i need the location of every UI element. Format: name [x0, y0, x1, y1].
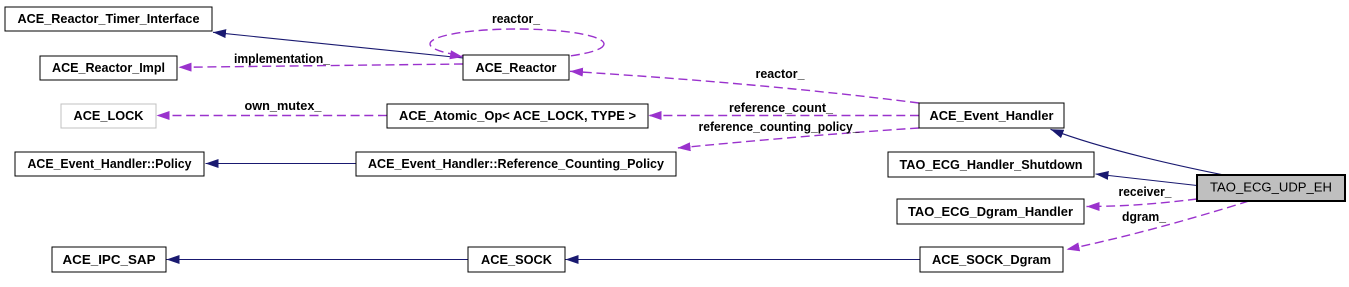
svg-text:receiver_: receiver_ — [1119, 184, 1173, 199]
svg-text:ACE_Reactor_Timer_Interface: ACE_Reactor_Timer_Interface — [18, 11, 200, 26]
edge: Reference_Counting_Policy inherits ACE_Event_Handler::Policy (solid) — [206, 163, 357, 165]
class box ACE_LOCK — [61, 104, 156, 128]
svg-text:ACE_IPC_SAP: ACE_IPC_SAP — [63, 252, 156, 267]
edge: reference_counting_policy_ (ACE_Event_Handler -> Reference_Counting_Policy, dashed) — [678, 119, 920, 148]
svg-text:TAO_ECG_Dgram_Handler: TAO_ECG_Dgram_Handler — [908, 204, 1073, 219]
edge: implementation_ (ACE_Reactor -> ACE_Reactor_Impl, dashed) — [179, 51, 464, 67]
class box TAO_ECG_Dgram_Handler — [897, 199, 1084, 224]
class box TAO_ECG_UDP_EH (current class, grey) — [1197, 175, 1345, 201]
edge: reference_count_ (ACE_Event_Handler -> ACE_Atomic_Op, dashed) — [649, 100, 920, 116]
svg-text:ACE_Event_Handler::Policy: ACE_Event_Handler::Policy — [28, 156, 193, 171]
svg-text:ACE_Atomic_Op< ACE_LOCK, TYPE: ACE_Atomic_Op< ACE_LOCK, TYPE > — [399, 108, 636, 123]
edge: TAO_ECG_UDP_EH inherits TAO_ECG_Handler_Shutdown (solid) — [1096, 174, 1198, 186]
svg-text:reference_counting_policy_: reference_counting_policy_ — [699, 119, 861, 134]
svg-text:ACE_SOCK_Dgram: ACE_SOCK_Dgram — [932, 252, 1051, 267]
edge: receiver_ (TAO_ECG_UDP_EH -> TAO_ECG_Dgram_Handler, dashed) — [1087, 184, 1198, 207]
class box ACE_Reactor_Impl — [40, 56, 177, 80]
svg-text:ACE_SOCK: ACE_SOCK — [481, 252, 553, 267]
class box ACE_Event_Handler::Reference_Counting_Policy — [356, 152, 676, 176]
svg-text:own_mutex_: own_mutex_ — [245, 98, 323, 113]
svg-text:reactor_: reactor_ — [492, 11, 541, 26]
edge: ACE_SOCK inherits ACE_IPC_SAP (solid) — [167, 259, 469, 261]
edge: reactor_ (ACE_Event_Handler -> ACE_Reactor, dashed) — [570, 66, 919, 103]
class box ACE_Reactor — [463, 55, 569, 80]
edge: TAO_ECG_UDP_EH inherits ACE_Event_Handler (solid) — [1051, 129, 1225, 175]
svg-text:TAO_ECG_Handler_Shutdown: TAO_ECG_Handler_Shutdown — [900, 157, 1083, 172]
class box ACE_IPC_SAP — [52, 247, 166, 272]
svg-text:ACE_Event_Handler: ACE_Event_Handler — [930, 108, 1054, 123]
svg-text:ACE_LOCK: ACE_LOCK — [74, 108, 145, 123]
svg-text:TAO_ECG_UDP_EH: TAO_ECG_UDP_EH — [1210, 180, 1332, 195]
edge: reactor_ self-loop on ACE_Reactor (dashed ellipse) — [430, 11, 604, 59]
class box ACE_SOCK_Dgram — [920, 247, 1063, 272]
class box ACE_Atomic_Op< ACE_LOCK, TYPE > — [387, 104, 648, 128]
svg-text:reactor_: reactor_ — [756, 66, 806, 81]
class box ACE_SOCK — [468, 247, 565, 272]
svg-text:implementation_: implementation_ — [234, 51, 331, 66]
svg-text:ACE_Event_Handler::Reference_C: ACE_Event_Handler::Reference_Counting_Po… — [368, 156, 665, 171]
class box ACE_Event_Handler::Policy — [15, 152, 204, 176]
svg-text:ACE_Reactor_Impl: ACE_Reactor_Impl — [52, 60, 165, 75]
edge: dgram_ (TAO_ECG_UDP_EH -> ACE_SOCK_Dgram, dashed) — [1067, 201, 1250, 250]
edge: own_mutex_ (ACE_Atomic_Op -> ACE_LOCK, dashed) — [157, 98, 388, 116]
class box ACE_Event_Handler — [919, 103, 1064, 128]
class box ACE_Reactor_Timer_Interface — [5, 7, 212, 31]
svg-text:ACE_Reactor: ACE_Reactor — [476, 60, 557, 75]
svg-text:reference_count_: reference_count_ — [729, 100, 834, 115]
edge: ACE_Reactor inherits ACE_Reactor_Timer_Interface (solid) — [213, 32, 463, 58]
edge: ACE_SOCK_Dgram inherits ACE_SOCK (solid) — [566, 259, 921, 261]
svg-text:dgram_: dgram_ — [1122, 209, 1167, 224]
class box TAO_ECG_Handler_Shutdown — [888, 152, 1094, 177]
